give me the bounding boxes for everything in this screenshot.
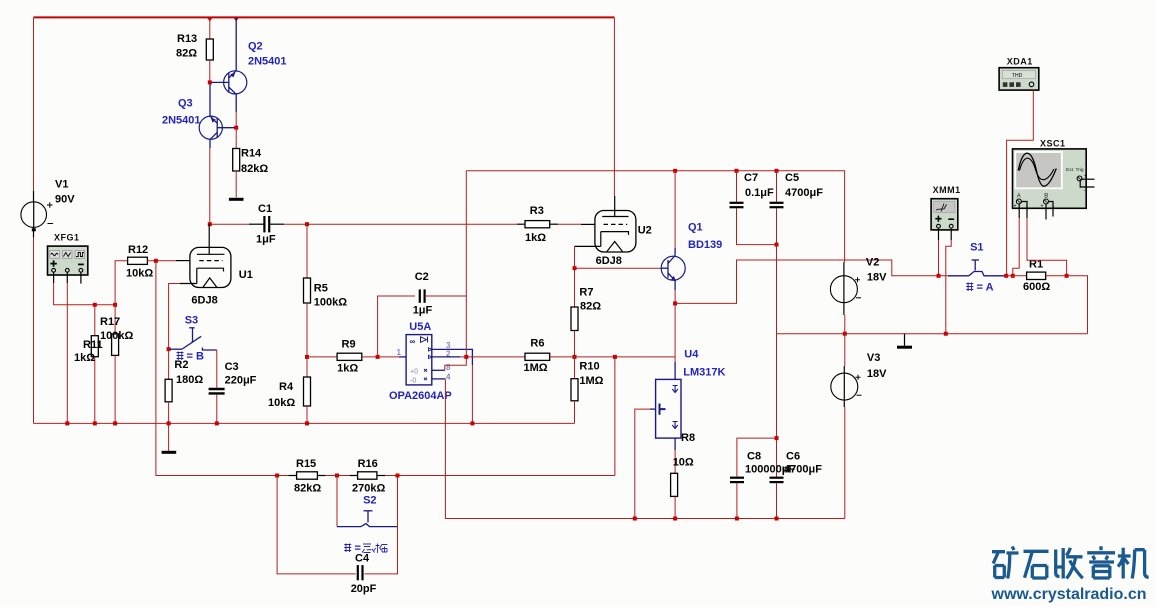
svg-text:OPA2604AP: OPA2604AP: [389, 390, 452, 402]
wire pin8 to +rail riser: [432, 171, 467, 370]
svg-text:R4: R4: [279, 381, 294, 393]
node junction Q1 emitter / U4 / output: [673, 301, 677, 305]
node junction XFG1 common on bus: [65, 421, 69, 425]
svg-text:6DJ8: 6DJ8: [596, 255, 622, 267]
node junction R4 on bus: [305, 421, 309, 425]
svg-text:www.crystalradio.cn: www.crystalradio.cn: [991, 586, 1147, 603]
transistor Q2 2N5401: [211, 17, 287, 127]
node junction C8 on -rail: [735, 517, 739, 521]
node junction C8 tap: [775, 436, 779, 440]
svg-text:XSC1: XSC1: [1040, 139, 1066, 149]
svg-text:Q2: Q2: [248, 41, 263, 53]
svg-text:270kΩ: 270kΩ: [352, 483, 385, 495]
svg-text:R14: R14: [241, 148, 262, 160]
wire U2 cathode to Q1 base: [575, 246, 669, 268]
node junction XSC1 B tap at R1 right: [1065, 274, 1069, 278]
node junction pin3 on bus: [470, 421, 474, 425]
multimeter XMM1: [931, 185, 961, 230]
svg-text:XFG1: XFG1: [54, 233, 80, 243]
svg-text:+0: +0: [410, 369, 418, 376]
svg-text:R17: R17: [100, 316, 120, 328]
node junction S2 right / C4 right: [396, 474, 400, 478]
node junction Q1 collector on rail: [673, 169, 677, 173]
node junction R9 line: [305, 355, 309, 359]
svg-text:1kΩ: 1kΩ: [74, 352, 95, 364]
wire C5 bottom down to ground rail: [776, 245, 778, 334]
node junction XDA1 on output: [1004, 274, 1008, 278]
wire XDA1 lead: [1007, 90, 1034, 276]
node junction C4 left tap: [275, 474, 279, 478]
svg-text:100kΩ: 100kΩ: [100, 330, 133, 342]
vacuum tube U1 6DJ8: [180, 224, 253, 306]
svg-text:R5: R5: [314, 283, 328, 295]
node junction Q3 base / R14 top: [234, 126, 238, 130]
capacitor C1 1μF: [210, 203, 307, 246]
svg-text:U4: U4: [684, 349, 699, 361]
node junction U4 adj on -rail: [633, 517, 637, 521]
svg-text:1μF: 1μF: [413, 305, 433, 317]
resistor R15 82kΩ: [289, 458, 326, 495]
svg-text:Q3: Q3: [178, 98, 193, 110]
svg-text:0.1μF: 0.1μF: [745, 187, 774, 199]
svg-text:100kΩ: 100kΩ: [314, 297, 347, 309]
svg-text:XMM1: XMM1: [933, 185, 961, 195]
switch S3 key=B: [170, 315, 217, 351]
switch S2 key=space: [337, 476, 398, 527]
svg-text:C3: C3: [225, 361, 239, 373]
wire U1 cathode down: [169, 284, 180, 350]
svg-text:C8: C8: [747, 451, 761, 463]
svg-text:U5A: U5A: [409, 321, 431, 333]
wire analog ground rail: [777, 333, 1088, 335]
node junction C7 on rail: [735, 169, 739, 173]
svg-text:BD139: BD139: [688, 239, 722, 251]
wire bottom ground bus: [34, 422, 575, 424]
wire XMM1 plus lead: [938, 228, 940, 276]
svg-text:1MΩ: 1MΩ: [579, 375, 603, 387]
node junction R7 top: [573, 266, 577, 270]
svg-text:Ext. Trig: Ext. Trig: [1066, 167, 1084, 173]
svg-text:2N5401: 2N5401: [248, 56, 287, 68]
svg-text:82Ω: 82Ω: [176, 48, 197, 60]
wire pin3 to ground bus: [432, 349, 473, 423]
voltage source V2 18V: [830, 257, 887, 334]
svg-text:10kΩ: 10kΩ: [126, 268, 153, 280]
voltage source V1 90V: [21, 179, 75, 238]
wire XMM1 minus lead: [946, 228, 951, 334]
svg-text:+: +: [1084, 174, 1087, 180]
resistor R16 270kΩ: [350, 458, 386, 495]
node junction feedback tap: [613, 355, 617, 359]
vacuum tube U2 6DJ8: [575, 211, 652, 268]
wire output net to U4: [575, 356, 676, 358]
wire C1 node to R3: [307, 223, 517, 225]
svg-text:1kΩ: 1kΩ: [525, 232, 546, 244]
switch S1 key=A: [948, 242, 1005, 276]
resistor R9 1kΩ: [307, 339, 399, 375]
svg-text:82Ω: 82Ω: [580, 301, 601, 313]
resistor R14 82kΩ: [233, 128, 269, 198]
svg-text:R12: R12: [128, 244, 148, 256]
resistor R2 180Ω: [165, 349, 203, 451]
svg-text:C1: C1: [258, 203, 272, 215]
svg-text:V3: V3: [867, 352, 880, 364]
node junction pin2 / feedback vertical: [464, 355, 468, 359]
capacitor C5 4700μF: [770, 171, 824, 245]
svg-text:6DJ8: 6DJ8: [191, 295, 217, 307]
function generator XFG1: [48, 233, 88, 276]
wire +18V top rail: [466, 171, 844, 262]
svg-text:18V: 18V: [867, 368, 887, 380]
capacitor C4 20pF: [277, 476, 397, 596]
svg-text:180Ω: 180Ω: [176, 374, 203, 386]
wire feedback drop from grid node: [156, 261, 297, 476]
svg-text:18V: 18V: [867, 272, 887, 284]
ground below R2: [162, 451, 177, 454]
svg-text:20pF: 20pF: [351, 583, 377, 595]
node junction V2 minus: [843, 332, 847, 336]
resistor R3 1kΩ: [517, 205, 595, 244]
svg-text:XDA1: XDA1: [1007, 57, 1033, 67]
svg-text:1: 1: [397, 348, 402, 357]
svg-text:V1: V1: [55, 179, 68, 191]
svg-text:C7: C7: [744, 172, 758, 184]
svg-text:1MΩ: 1MΩ: [524, 362, 548, 374]
node junction XMM1 minus: [944, 332, 948, 336]
node junction R2 lead on ground bus: [167, 421, 171, 425]
svg-text:V2: V2: [866, 257, 879, 269]
svg-text:82kΩ: 82kΩ: [241, 163, 268, 175]
watermark logo text: [992, 546, 1149, 578]
wire XFG1 minus stub: [80, 272, 82, 283]
svg-text:R16: R16: [358, 458, 378, 470]
wire U2 plate feed from top border: [613, 17, 615, 216]
node junction XMM1 plus on output: [937, 274, 941, 278]
node junction S2 left: [335, 474, 339, 478]
watermark url text: [991, 586, 1147, 603]
resistor R17 100kΩ: [100, 305, 133, 424]
resistor R7 82Ω: [571, 268, 601, 357]
wire XFG1 plus lead: [54, 272, 116, 305]
svg-text:C4: C4: [355, 553, 370, 565]
svg-text:10kΩ: 10kΩ: [268, 397, 295, 409]
svg-text:R2: R2: [174, 359, 188, 371]
svg-text:-0: -0: [410, 378, 416, 385]
node junction C5/C7 bottoms: [775, 243, 779, 247]
svg-text:= A: = A: [977, 282, 994, 294]
svg-text:600Ω: 600Ω: [1023, 281, 1050, 293]
svg-text:R15: R15: [296, 458, 316, 470]
resistor R12 10kΩ: [115, 244, 190, 305]
resistor R11 1kΩ: [74, 305, 103, 424]
transistor Q3 2N5401: [162, 82, 236, 224]
svg-text:4700μF: 4700μF: [784, 464, 822, 476]
node junction grid feedback tap: [154, 259, 158, 263]
node junction R7 bottom / R10 top: [573, 355, 577, 359]
wire top border B+ rail: [34, 17, 615, 423]
resistor R6 1MΩ: [466, 338, 574, 375]
wire output to jog: [675, 260, 948, 303]
label key=A: [966, 282, 993, 294]
svg-text:R3: R3: [530, 205, 544, 217]
node junction C6 on -rail: [775, 517, 779, 521]
svg-text:U1: U1: [239, 269, 253, 281]
node junction R17 on bus: [113, 421, 117, 425]
wire C6/C8 riser: [776, 334, 778, 477]
wire feedback line segments: [325, 475, 615, 477]
wire pin4 to negative rail: [432, 379, 845, 519]
svg-text:∞: ∞: [410, 337, 416, 346]
ground on analog rail: [897, 334, 912, 348]
capacitor C2 1μF: [378, 271, 467, 357]
svg-text:Q1: Q1: [688, 222, 703, 234]
svg-text:82kΩ: 82kΩ: [294, 483, 321, 495]
svg-text:R10: R10: [579, 361, 599, 373]
node junction C1 left / U1 plate: [208, 222, 212, 226]
node junction cathode / R2 / S3: [167, 347, 171, 351]
label key=space: [344, 543, 387, 555]
svg-text:U2: U2: [638, 225, 652, 237]
svg-text:= B: = B: [187, 351, 204, 363]
resistor R8 10Ω: [671, 432, 695, 519]
node junction R5 top: [305, 222, 309, 226]
node junction XSC1 A on output: [1011, 274, 1015, 278]
wire pin2 stub: [432, 356, 467, 358]
capacitor C6 4700μF: [770, 451, 823, 519]
wire feedback line right end riser: [614, 357, 616, 476]
node junction R11 on bus: [93, 421, 97, 425]
svg-text:C2: C2: [415, 271, 429, 283]
svg-text:R6: R6: [530, 338, 544, 350]
svg-text:220μF: 220μF: [225, 375, 257, 387]
svg-text:4700μF: 4700μF: [785, 187, 823, 199]
svg-text:+: +: [1041, 204, 1044, 210]
capacitor C8 100000pF: [730, 438, 795, 518]
label key=B: [177, 351, 204, 363]
svg-text:S3: S3: [185, 315, 198, 327]
capacitor C7 0.1μF: [730, 171, 777, 245]
svg-text:2N5401: 2N5401: [162, 115, 201, 127]
resistor R1 600Ω: [1023, 259, 1088, 334]
ground below R14: [229, 198, 244, 201]
wire XFG1 common lead to ground bus: [66, 272, 68, 423]
node junction top rail R13: [207, 17, 213, 21]
distortion analyzer XDA1: [999, 57, 1039, 91]
op-amp U5A OPA2604AP: [389, 321, 452, 402]
voltage source V3 18V: [831, 334, 887, 519]
svg-text:+: +: [1014, 204, 1017, 210]
power device U4 LM317K: [635, 303, 726, 518]
resistor R4 10kΩ: [268, 377, 311, 423]
svg-text:4: 4: [446, 373, 451, 382]
svg-text:LM317K: LM317K: [683, 367, 725, 379]
node junction C5 on rail: [775, 169, 779, 173]
wire S1 to R1: [1005, 275, 1027, 277]
wire XSC1 A plus lead: [1013, 204, 1019, 276]
node junction R17 top / R12 corner: [113, 303, 117, 307]
svg-text:C5: C5: [785, 172, 799, 184]
resistor R5 100kΩ: [304, 224, 348, 377]
node junction Q2 base: [208, 80, 212, 84]
resistor R13 82Ω: [176, 17, 213, 82]
wire XSC1 A minus lead: [1021, 202, 1066, 276]
capacitor C3 220μF: [209, 350, 257, 423]
wire XSC1 B stubs: [1046, 202, 1053, 220]
svg-text:S1: S1: [970, 242, 983, 254]
svg-text:R13: R13: [177, 33, 197, 45]
svg-text:1kΩ: 1kΩ: [337, 363, 358, 375]
svg-text:R7: R7: [579, 287, 593, 299]
node junction R8 on -rail: [673, 517, 677, 521]
svg-text:S2: S2: [363, 495, 376, 507]
svg-text:1μF: 1μF: [256, 234, 276, 246]
node junction C3 on ground bus: [215, 421, 219, 425]
svg-text:90V: 90V: [55, 194, 75, 206]
svg-text:THD: THD: [1012, 73, 1023, 79]
transistor Q1 BD139: [661, 171, 722, 304]
oscilloscope XSC1: [1013, 139, 1095, 210]
svg-text:8: 8: [446, 363, 451, 372]
node junction top rail Q2: [233, 17, 239, 21]
node junction C2 left tap: [376, 355, 380, 359]
svg-text:R8: R8: [681, 432, 695, 444]
resistor R10 1MΩ: [571, 357, 604, 424]
svg-text:C6: C6: [786, 451, 800, 463]
svg-text:10Ω: 10Ω: [673, 457, 694, 469]
svg-text:R9: R9: [342, 339, 356, 351]
node junction R11 top: [93, 303, 97, 307]
